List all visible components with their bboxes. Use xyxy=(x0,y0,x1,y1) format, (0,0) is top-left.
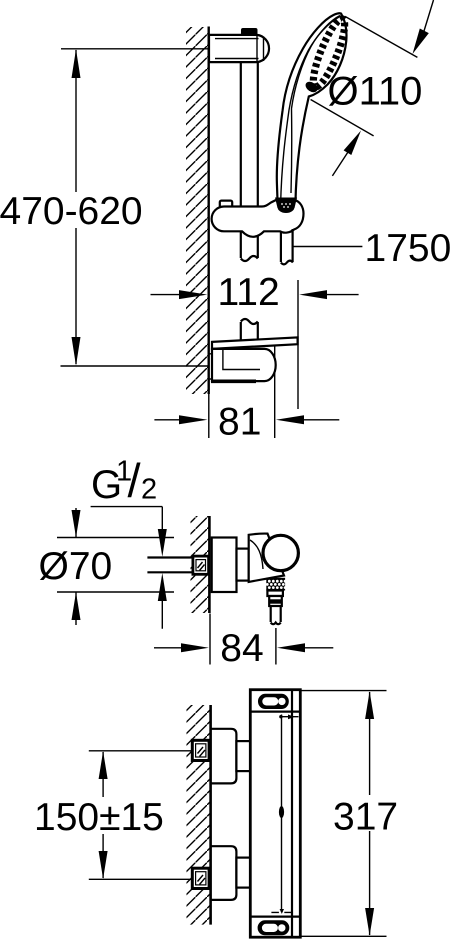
svg-text:150±15: 150±15 xyxy=(34,796,164,839)
svg-text:1750: 1750 xyxy=(365,227,452,270)
svg-text:Ø70: Ø70 xyxy=(39,545,113,588)
svg-text:81: 81 xyxy=(218,401,261,444)
svg-text:2: 2 xyxy=(141,474,157,506)
svg-text:84: 84 xyxy=(220,627,263,670)
svg-text:/: / xyxy=(128,454,142,507)
svg-text:470-620: 470-620 xyxy=(0,190,143,233)
svg-text:Ø110: Ø110 xyxy=(328,70,423,114)
svg-text:317: 317 xyxy=(333,796,398,839)
svg-text:112: 112 xyxy=(218,271,280,314)
